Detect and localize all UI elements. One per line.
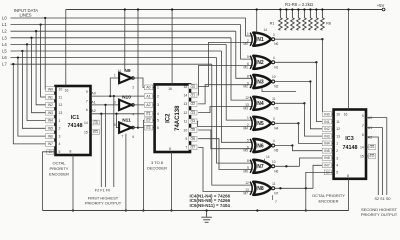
node N8 pullup junction <box>279 187 281 189</box>
wire O5 to gate N6 input <box>198 130 253 149</box>
node L1 junction <box>39 23 41 25</box>
wire IC2 pin16 to +5V rail <box>171 10 173 85</box>
svg-text:3: 3 <box>157 103 159 107</box>
node N1 pullup junction <box>321 38 323 40</box>
svg-text:M3: M3 <box>244 106 249 110</box>
node R2 top rail <box>285 8 287 10</box>
wire L7 to gate N8 input <box>212 64 253 185</box>
svg-text:15: 15 <box>84 130 88 134</box>
label IC3 IN6 <box>322 156 332 161</box>
svg-text:M7: M7 <box>244 191 249 195</box>
svg-text:ENCODER: ENCODER <box>318 199 338 204</box>
svg-text:5: 5 <box>247 138 249 142</box>
ground symbol <box>206 211 208 217</box>
svg-text:IN5: IN5 <box>48 127 53 131</box>
wire L1 to gate N2 input <box>241 25 253 60</box>
node A1 to F1 junction <box>104 104 106 106</box>
svg-text:1: 1 <box>336 142 338 146</box>
svg-text:GS: GS <box>370 145 376 149</box>
svg-text:O6: O6 <box>191 137 196 141</box>
svg-text:6: 6 <box>362 133 364 137</box>
svg-text:IC6(N9-N11) = 7404: IC6(N9-N11) = 7404 <box>190 203 231 208</box>
inverter N11 <box>119 122 131 132</box>
svg-text:5: 5 <box>59 150 61 154</box>
svg-text:IN3: IN3 <box>48 111 53 115</box>
node IC2 pin8 ground <box>170 209 172 211</box>
node IC1 pin8 on ground rail <box>72 209 74 211</box>
svg-text:5: 5 <box>336 171 338 175</box>
label IC2 O7 <box>189 145 197 150</box>
node N6 pullup junction <box>291 144 293 146</box>
svg-text:5: 5 <box>247 55 249 59</box>
svg-text:1: 1 <box>114 73 116 77</box>
node L3 junction <box>30 37 32 39</box>
svg-text:14: 14 <box>264 28 268 32</box>
label IC1 GS <box>92 120 99 125</box>
svg-text:N9: N9 <box>124 68 130 74</box>
label IC1 IN0 <box>46 87 56 92</box>
svg-text:8: 8 <box>347 174 349 178</box>
svg-text:IN1: IN1 <box>48 95 53 99</box>
svg-text:A0: A0 <box>91 92 95 96</box>
svg-text:M5: M5 <box>244 149 249 153</box>
wire L2 to IC1 IN2 <box>36 31 55 105</box>
svg-text:11: 11 <box>59 95 63 99</box>
node R7 top rail <box>315 8 317 10</box>
node N3 pullup junction <box>309 80 311 82</box>
svg-text:L7: L7 <box>2 62 7 67</box>
svg-text:OCTAL PRIORITY: OCTAL PRIORITY <box>312 193 345 198</box>
svg-text:L1: L1 <box>2 22 7 27</box>
node ground symbol junction <box>205 209 207 211</box>
wire IC2 pin8 to ground rail <box>171 152 173 211</box>
label IC2 E3 <box>144 125 152 130</box>
wire 74266 second pin14 stub <box>264 159 266 162</box>
svg-text:E3: E3 <box>146 126 150 130</box>
svg-text:1: 1 <box>247 32 249 36</box>
label IC3 IN2 <box>322 126 332 131</box>
svg-text:GS: GS <box>93 121 99 125</box>
wire L6 horizontal <box>11 57 217 59</box>
svg-text:IN5: IN5 <box>324 149 329 153</box>
svg-text:IN2: IN2 <box>324 127 329 131</box>
IC U1 74148 body <box>56 86 91 155</box>
wire IC3 pin8 to ground rail <box>348 179 350 211</box>
svg-text:4: 4 <box>336 164 338 168</box>
label IC3 IN0 <box>322 112 332 117</box>
svg-text:N5: N5 <box>257 121 264 127</box>
svg-text:1: 1 <box>59 119 61 123</box>
label IC1 IN2 <box>46 102 56 107</box>
wire O3 to gate N4 input <box>198 107 253 113</box>
node E2 ground rail <box>142 209 144 211</box>
wire A0 up to N9 input <box>110 78 119 96</box>
wire IC1 EO stub <box>91 131 92 133</box>
resistor R2 <box>285 10 289 31</box>
svg-text:N8: N8 <box>257 186 264 192</box>
wire L2 horizontal <box>11 30 236 32</box>
svg-text:14: 14 <box>360 145 364 149</box>
resistor R4 <box>297 10 301 31</box>
wire L1 horizontal <box>11 24 241 26</box>
svg-text:N3: N3 <box>257 79 264 85</box>
label IC1 IN1 <box>46 95 56 100</box>
svg-text:11: 11 <box>184 120 188 124</box>
resistor R1 <box>279 10 283 31</box>
svg-text:6: 6 <box>157 126 159 130</box>
svg-text:9: 9 <box>362 114 364 118</box>
node 7404 pin14 rail <box>124 8 126 10</box>
svg-text:N4: N4 <box>274 126 278 130</box>
svg-text:3 TO 8: 3 TO 8 <box>151 160 164 165</box>
wire F2 output <box>100 114 102 187</box>
wire N2 to IC3 IN1 <box>316 62 333 121</box>
svg-text:IN7: IN7 <box>48 142 53 146</box>
svg-text:3: 3 <box>59 134 61 138</box>
svg-text:IC1: IC1 <box>71 115 79 121</box>
svg-text:5: 5 <box>114 123 116 127</box>
svg-text:13: 13 <box>336 134 340 138</box>
label IC2 O2 <box>189 102 197 107</box>
node IC2 pin16 rail <box>171 8 173 10</box>
XNOR gate N3 <box>253 75 271 88</box>
node IC3 EI ground <box>305 209 307 211</box>
svg-text:5: 5 <box>157 119 159 123</box>
node L0 junction <box>44 17 46 19</box>
wire N9 output to IC2 A0 <box>134 78 154 87</box>
svg-text:PRIORITY OUTPUT: PRIORITY OUTPUT <box>85 201 122 206</box>
node N2 pullup junction <box>315 61 317 63</box>
svg-text:+5V: +5V <box>377 3 385 8</box>
wire N1 output to R8 <box>274 38 322 40</box>
wire L4 to IC1 IN4 <box>27 44 56 120</box>
svg-text:2: 2 <box>59 127 61 131</box>
node A0 to N9 junction <box>109 95 111 97</box>
wire N8 to IC3 IN7 <box>313 165 334 188</box>
svg-text:15: 15 <box>360 154 364 158</box>
svg-text:10: 10 <box>336 113 340 117</box>
label IC2 E2 <box>144 118 152 123</box>
XNOR gate N2 <box>253 56 271 69</box>
node A2 to F2 junction <box>100 113 102 115</box>
svg-text:2: 2 <box>157 94 159 98</box>
svg-text:16: 16 <box>65 89 69 93</box>
svg-text:8: 8 <box>247 74 249 78</box>
label IC3 IN5 <box>322 148 332 153</box>
svg-text:DECODER: DECODER <box>147 166 167 171</box>
svg-text:O4: O4 <box>191 120 196 124</box>
svg-text:E1: E1 <box>146 112 150 116</box>
svg-text:O3: O3 <box>191 111 196 115</box>
node R5 top rail <box>303 8 305 10</box>
XNOR gate N1 <box>253 33 271 46</box>
svg-text:FIRST HIGHEST: FIRST HIGHEST <box>88 195 119 200</box>
wire 7404 pin14 from +5V rail <box>124 10 126 71</box>
svg-text:R1: R1 <box>270 22 275 26</box>
label IC1 EI <box>47 149 54 154</box>
wire IC1 EI to ground rail <box>43 152 56 211</box>
resistor R5 <box>303 10 307 31</box>
svg-text:O2: O2 <box>191 102 196 106</box>
label IC2 O0 <box>189 84 197 89</box>
svg-text:ENCODER: ENCODER <box>49 172 69 177</box>
svg-text:A2: A2 <box>91 109 95 113</box>
wire E3 into IC2 <box>138 127 155 129</box>
svg-text:N11: N11 <box>122 117 131 123</box>
label IC1 IN6 <box>46 134 56 139</box>
svg-text:11: 11 <box>272 97 276 101</box>
svg-text:R8: R8 <box>326 22 331 26</box>
node L4 junction <box>26 43 28 45</box>
svg-text:EO: EO <box>93 130 98 134</box>
wire IC1 A1 row to N10 <box>91 104 120 106</box>
svg-text:8: 8 <box>70 150 72 154</box>
wire IC1 GS stub <box>91 122 92 124</box>
svg-text:4: 4 <box>132 113 134 117</box>
svg-text:12: 12 <box>336 127 340 131</box>
wire N10 output to IC2 A2 <box>134 104 154 106</box>
svg-text:11: 11 <box>272 182 276 186</box>
node rail junction mid <box>256 209 258 211</box>
label IC2 O1 <box>189 93 197 98</box>
svg-text:74148: 74148 <box>343 145 358 151</box>
svg-text:4: 4 <box>273 56 275 60</box>
label IC1 IN4 <box>46 118 56 123</box>
svg-text:N2: N2 <box>274 85 278 89</box>
svg-text:M6: M6 <box>244 169 249 173</box>
IC U2 74AC138 body <box>155 84 190 152</box>
svg-text:7: 7 <box>185 146 187 150</box>
svg-text:L5: L5 <box>2 49 7 54</box>
svg-text:N7: N7 <box>257 164 264 170</box>
wire N1 to IC3 IN0 <box>322 39 333 114</box>
svg-text:IN6: IN6 <box>324 156 329 160</box>
svg-text:3: 3 <box>114 100 116 104</box>
svg-text:4: 4 <box>59 142 61 146</box>
svg-text:15: 15 <box>184 85 188 89</box>
wire O2 to gate N3 input <box>198 85 253 104</box>
svg-text:N6: N6 <box>257 143 264 149</box>
node N11 output E3 junction <box>137 126 139 128</box>
node A0 to F0 junction <box>113 95 115 97</box>
svg-text:3: 3 <box>273 117 275 121</box>
svg-text:74148: 74148 <box>68 123 83 129</box>
svg-text:11: 11 <box>336 120 340 124</box>
label IC2 O3 <box>189 110 197 115</box>
svg-text:OCTAL: OCTAL <box>52 161 66 166</box>
svg-text:9: 9 <box>185 137 187 141</box>
svg-text:10: 10 <box>59 88 63 92</box>
wire L2 to gate N3 input <box>236 31 253 78</box>
node N4 pullup junction <box>303 102 305 104</box>
wire L0 to IC1 IN0 <box>45 18 55 89</box>
wire N8 output to hook <box>274 187 313 189</box>
label IC1 EO <box>92 130 99 135</box>
inverter N10 <box>119 100 131 110</box>
label IC3 IN3 <box>322 134 332 139</box>
svg-text:A2: A2 <box>146 103 150 107</box>
node R1 top rail <box>279 8 281 10</box>
svg-text:IN6: IN6 <box>48 134 53 138</box>
svg-text:N1: N1 <box>274 65 278 69</box>
wire N7 output to hook <box>274 165 300 167</box>
wire L5 horizontal <box>11 50 222 52</box>
svg-text:16: 16 <box>344 112 348 116</box>
wire 74266 pin14 from +5V rail <box>256 10 258 33</box>
wire N2 output to R7 <box>274 61 316 63</box>
wire L4 horizontal <box>11 43 227 45</box>
svg-text:3: 3 <box>273 33 275 37</box>
svg-text:N3: N3 <box>274 106 278 110</box>
svg-text:2: 2 <box>336 149 338 153</box>
label IC2 E1 <box>144 111 152 116</box>
label IC2 O6 <box>189 136 197 141</box>
svg-text:14: 14 <box>84 121 88 125</box>
label IC2 O4 <box>189 119 197 124</box>
node R4 top rail <box>297 8 299 10</box>
svg-text:LINES: LINES <box>19 13 31 18</box>
svg-text:12: 12 <box>59 103 63 107</box>
node N7 pullup junction <box>285 165 287 167</box>
svg-text:EO: EO <box>370 154 375 158</box>
wire L0 horizontal <box>11 17 246 19</box>
wire O1 to gate N2 input <box>198 66 253 96</box>
svg-text:14: 14 <box>266 155 270 159</box>
svg-text:N6: N6 <box>274 169 278 173</box>
node L2 junction <box>35 30 37 32</box>
label IC3 GS <box>368 145 375 150</box>
label IC3 IN1 <box>322 119 332 124</box>
wire N11 output to IC2 E3 <box>134 127 138 129</box>
wire L3 to gate N4 input <box>231 38 253 100</box>
svg-text:N0: N0 <box>274 42 278 46</box>
svg-text:R1-R8 = 2.2kΩ: R1-R8 = 2.2kΩ <box>285 2 313 7</box>
node N8 EI crossing dot <box>305 187 307 189</box>
wire IC3 GS stub <box>366 146 368 148</box>
node R6 top rail <box>309 8 311 10</box>
label IC2 O5 <box>189 128 197 133</box>
svg-text:7: 7 <box>121 134 123 138</box>
svg-text:9: 9 <box>86 90 88 94</box>
wire L3 to IC1 IN3 <box>32 38 56 113</box>
svg-text:IN2: IN2 <box>48 103 53 107</box>
wire stub under N3 <box>262 88 296 91</box>
node E3 rail junction <box>137 8 139 10</box>
svg-text:6: 6 <box>86 108 88 112</box>
XNOR gate N4 <box>253 97 271 110</box>
svg-text:13: 13 <box>59 111 63 115</box>
resistor R8 <box>321 10 325 31</box>
svg-text:13: 13 <box>184 102 188 106</box>
node IC3 pin16 rail <box>347 8 349 10</box>
svg-text:M4: M4 <box>244 126 249 130</box>
svg-text:IN0: IN0 <box>324 113 329 117</box>
svg-text:IC3: IC3 <box>345 136 353 142</box>
node L7 junction <box>12 63 14 65</box>
label IC3 IN7 <box>322 163 332 168</box>
svg-text:M2: M2 <box>244 85 249 89</box>
wire A2 down to N11 input <box>117 114 120 128</box>
wire N5 to IC3 IN4 <box>298 123 333 143</box>
svg-text:IN4: IN4 <box>48 119 53 123</box>
wire L3 horizontal <box>11 37 232 39</box>
svg-text:14: 14 <box>117 69 121 73</box>
node R8 top rail <box>321 8 323 10</box>
label IC1 IN5 <box>46 126 56 131</box>
svg-text:2: 2 <box>132 86 134 90</box>
wire L5 to IC1 IN5 <box>22 51 55 128</box>
label IC3 IN4 <box>322 141 332 146</box>
svg-text:L3: L3 <box>2 35 7 40</box>
svg-text:O1: O1 <box>191 94 196 98</box>
svg-text:7: 7 <box>275 200 277 204</box>
wire L7 horizontal <box>11 63 212 65</box>
svg-text:N5: N5 <box>274 149 278 153</box>
svg-text:14: 14 <box>184 94 188 98</box>
wire L6 to IC1 IN6 <box>18 58 56 137</box>
wire L6 to gate N7 input <box>217 58 253 164</box>
wire +5V top rail <box>66 9 382 11</box>
wire N4 output to R5 <box>274 102 304 104</box>
svg-text:74AC138: 74AC138 <box>175 105 181 131</box>
label IC2 A0 <box>144 85 152 90</box>
label IC2 A1 <box>144 94 152 99</box>
svg-text:O0: O0 <box>191 85 196 89</box>
svg-text:N1: N1 <box>257 37 264 43</box>
svg-text:12: 12 <box>245 181 249 185</box>
svg-text:8: 8 <box>247 159 249 163</box>
XNOR gate N5 <box>253 117 271 130</box>
svg-text:A1: A1 <box>146 94 150 98</box>
wire IC1 pin8 to ground rail <box>72 155 74 211</box>
node N5 pullup junction <box>297 122 299 124</box>
svg-text:A0: A0 <box>146 86 150 90</box>
wire F0 output <box>113 96 115 187</box>
svg-text:7: 7 <box>362 124 364 128</box>
wire N3 output to R6 <box>274 81 310 83</box>
wire O0 to gate N1 input <box>198 42 253 86</box>
svg-text:16: 16 <box>168 87 172 91</box>
wire IC3 pin16 to +5V rail <box>348 10 350 110</box>
svg-text:L2: L2 <box>2 29 7 34</box>
inverter N9 <box>119 73 131 83</box>
svg-text:PRIORITY: PRIORITY <box>50 166 69 171</box>
wire L5 to gate N6 input <box>221 51 252 142</box>
label IC3 EI <box>324 170 331 175</box>
svg-text:A1: A1 <box>91 100 95 104</box>
wire IC1 pin16 to +5V rail <box>65 10 67 87</box>
wire N6 to IC3 IN5 <box>292 146 333 151</box>
svg-text:M1: M1 <box>244 65 249 69</box>
wire IC3 A2 to S2 <box>366 137 378 195</box>
XNOR gate N6 <box>253 139 271 152</box>
svg-text:6: 6 <box>132 135 134 139</box>
svg-text:M0: M0 <box>244 42 249 46</box>
svg-text:7: 7 <box>86 99 88 103</box>
svg-text:12: 12 <box>245 96 249 100</box>
svg-text:N10: N10 <box>122 95 131 101</box>
label IC1 IN7 <box>46 142 56 147</box>
svg-text:8: 8 <box>169 147 171 151</box>
wire IC3 A1 to S1 <box>366 128 383 195</box>
wire O4 to gate N5 input <box>198 121 253 126</box>
XNOR gate N7 <box>253 160 271 173</box>
node L5 junction <box>21 50 23 52</box>
svg-text:10: 10 <box>184 128 188 132</box>
svg-text:IC2: IC2 <box>166 113 172 123</box>
svg-text:F2 F1 F0: F2 F1 F0 <box>95 189 110 193</box>
node 74266 pin14 rail <box>256 8 258 10</box>
